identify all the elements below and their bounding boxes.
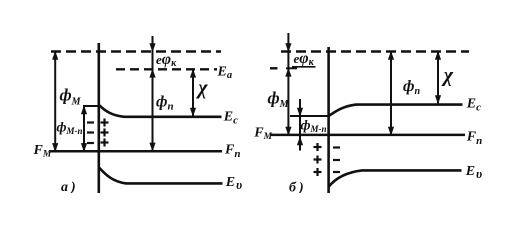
dimension line chi (electron affinity): [192, 69, 194, 116]
dimension line chi right: [437, 52, 439, 104]
dimension line phi-M right (with e-phi-k arrow): [287, 33, 289, 135]
valence band edge Ev curve: [99, 167, 223, 183]
tick at Ec interface level for Phi(M-n): [83, 105, 98, 107]
arrowhead phiM bottom: [52, 143, 58, 152]
arrowhead chi top right: [435, 51, 441, 60]
Fermi level line right FM-Fn: [271, 134, 465, 137]
tick at Ec interface level right: [290, 115, 328, 117]
minus charges at interface (metal side): [87, 123, 94, 144]
dimension line e*phi-k / phi-n: [152, 36, 154, 151]
valence band edge Ev curve right: [329, 170, 462, 186]
underline of e-phi-k: [292, 66, 316, 68]
minus charges right (semiconductor side): [333, 148, 340, 173]
interface boundary line (metal/semiconductor): [98, 43, 101, 193]
metal vacuum level tick through dimension line: [286, 67, 297, 69]
conduction band edge Ec curve right: [329, 105, 463, 116]
arrowhead PhiMn up at F from below right: [297, 136, 303, 145]
arrowhead phi-n top right: [388, 51, 394, 60]
arrowhead phi-n bottom at F: [149, 143, 155, 152]
dimension line Phi(M-n) right: [299, 99, 301, 151]
vacuum level of metal: top dashed line: [51, 50, 221, 52]
arrowhead phi-M top at metal vacuum: [285, 68, 291, 77]
arrowhead chi top: [190, 69, 196, 78]
svg-text:Eυ: Eυ: [465, 164, 482, 181]
arrowhead chi bottom right: [435, 95, 441, 104]
arrowhead e-phi-k pointing down at vacuum line: [149, 43, 155, 52]
plus charges at interface (semiconductor side): [101, 119, 109, 147]
arrowhead PhiMn bottom: [81, 143, 87, 152]
arrowhead phi-n top at Ea: [149, 69, 155, 78]
plus charges right (metal side): [314, 143, 322, 176]
Fermi level line FM-Fn: [50, 150, 222, 153]
conduction band edge Ec curve: [99, 105, 222, 117]
dimension line Phi(M-n): [83, 106, 85, 151]
arrowhead PhiMn top: [81, 105, 87, 114]
semiconductor vacuum level dashed line right: [281, 50, 469, 52]
interface boundary line right: [327, 47, 330, 193]
node Ea: semiconductor vacuum level dashed line: [116, 68, 217, 70]
dimension line phi-n right: [390, 52, 392, 135]
arrowhead phi-n bottom right: [388, 127, 394, 136]
arrowhead PhiMn down at Ec tick right: [297, 108, 303, 117]
arrowhead phiM top: [52, 51, 58, 60]
svg-text:Eυ: Eυ: [225, 175, 242, 192]
arrowhead phi-M bottom at F: [285, 127, 291, 136]
arrowhead chi bottom: [190, 108, 196, 117]
dimension line phi-M (metal work function): [54, 52, 56, 152]
arrowhead e-phi-k down at vacuum line right: [285, 43, 291, 52]
metal vacuum level short dash: [270, 67, 278, 69]
